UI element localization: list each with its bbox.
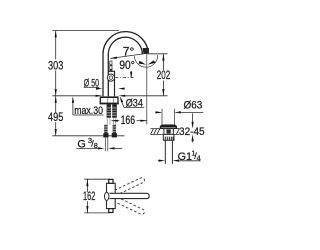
deck hatching left bbox=[151, 129, 160, 134]
svg-text:G1: G1 bbox=[178, 151, 192, 163]
G 3/8 right arrow bbox=[108, 147, 114, 149]
aerator end cap bbox=[143, 48, 149, 53]
lever stick bands bbox=[110, 64, 112, 66]
drain flange dome bbox=[160, 125, 177, 129]
tail end cap left bbox=[103, 133, 108, 137]
7 degree reference line bbox=[110, 53, 147, 58]
svg-text:4: 4 bbox=[197, 153, 201, 162]
G1 1/4 right arrow with leader underline bbox=[173, 160, 179, 162]
drain body center detail bbox=[166, 129, 170, 133]
deck extension line left with arrow bbox=[52, 95, 96, 97]
lever stick bbox=[110, 61, 112, 72]
escutcheon body bbox=[100, 98, 118, 103]
32-45 dimension arrows bbox=[192, 113, 194, 122]
162 dimension line bbox=[86, 179, 88, 213]
angle arc left arrowhead bbox=[139, 61, 147, 65]
max.30 underline bbox=[73, 114, 104, 116]
90 degree arrow bbox=[130, 71, 132, 77]
locknut flutes bbox=[165, 137, 173, 140]
underline diameter 34 bbox=[124, 106, 144, 108]
top view extension lines bbox=[84, 179, 109, 213]
top view dashed swivel spout lower bbox=[111, 195, 146, 215]
svg-text:G: G bbox=[77, 139, 85, 151]
166 dimension line right segment bbox=[137, 120, 147, 122]
G1 1/4 left arrow bbox=[158, 160, 160, 162]
max.30 vertical leader with up arrow bbox=[72, 103, 74, 116]
escutcheon inner shank lines bbox=[108, 98, 114, 102]
supply tail left bbox=[104, 125, 107, 133]
top view pivot ellipse bbox=[105, 192, 109, 200]
202 extension line at outlet bbox=[149, 53, 168, 55]
dash-dot centerline from handle bbox=[115, 77, 133, 79]
left dimension line 303 and 495 bbox=[55, 31, 57, 136]
hose transition lines bbox=[107, 118, 115, 125]
svg-text:166: 166 bbox=[121, 115, 135, 127]
outlet axis extension line bbox=[146, 54, 148, 125]
underline diameter 50 bbox=[84, 86, 100, 88]
escutcheon top edge bbox=[100, 96, 119, 98]
valve body right edge bbox=[108, 71, 114, 96]
threaded shank stud right bbox=[112, 104, 117, 117]
handle joint inner circle bbox=[109, 76, 112, 79]
top view dashed swivel spout upper bbox=[111, 177, 146, 197]
166 dimension line left segment bbox=[112, 120, 120, 122]
arrow up below deck bbox=[55, 96, 57, 103]
drain tailpipe bbox=[165, 140, 172, 164]
svg-text:32-45: 32-45 bbox=[179, 126, 205, 138]
top view tab lower bbox=[109, 209, 113, 213]
svg-text:303: 303 bbox=[48, 60, 63, 72]
svg-text:Ø63: Ø63 bbox=[184, 100, 203, 112]
arrow down at deck bbox=[55, 89, 57, 96]
svg-text:495: 495 bbox=[48, 112, 63, 124]
threaded shank stud left bbox=[107, 104, 112, 117]
top view spout bar bbox=[110, 193, 150, 198]
base plate band bbox=[100, 103, 119, 105]
bottom extension line bbox=[52, 135, 124, 137]
spout tube arc outer bbox=[103, 32, 148, 97]
top view tab upper bbox=[109, 179, 113, 183]
arrow up at top bbox=[55, 31, 57, 38]
top extension line bbox=[52, 30, 119, 32]
drain diameter 63 dimension line bbox=[155, 111, 161, 113]
diameter 34 elbow leader bbox=[121, 99, 124, 107]
top view body bbox=[107, 183, 116, 208]
drain locknut bbox=[163, 134, 174, 140]
202 dimension line bbox=[162, 54, 164, 96]
handle joint circle bbox=[107, 74, 114, 81]
G 3/8 underline leader with arrow bbox=[77, 147, 100, 149]
tail edge extension lines bbox=[105, 138, 108, 152]
svg-text:162: 162 bbox=[83, 191, 95, 203]
deck extension line right with arrow bbox=[125, 95, 168, 97]
tail thread ticks bbox=[104, 126, 116, 131]
drain body through deck bbox=[164, 129, 174, 135]
arrow down at bottom bbox=[55, 129, 57, 136]
deck band bottom line bbox=[150, 133, 179, 135]
angle dimension arc at aerator bbox=[134, 55, 157, 67]
deck hatching right bbox=[176, 129, 179, 134]
supply tail right bbox=[113, 125, 116, 133]
shank thread ticks bbox=[107, 107, 116, 116]
deck band top line bbox=[150, 128, 179, 130]
spout tube arc inner bbox=[108, 37, 142, 96]
drain diameter 63 extension lines bbox=[162, 109, 175, 125]
7 degree line arrowhead bbox=[110, 57, 117, 59]
diameter 50 arrows bbox=[96, 88, 124, 90]
svg-text:202: 202 bbox=[157, 70, 170, 82]
tail end cap right bbox=[112, 133, 117, 137]
angle arc right arrowhead bbox=[148, 60, 156, 64]
escutcheon sides bbox=[100, 98, 118, 103]
svg-text:90°: 90° bbox=[119, 60, 134, 72]
